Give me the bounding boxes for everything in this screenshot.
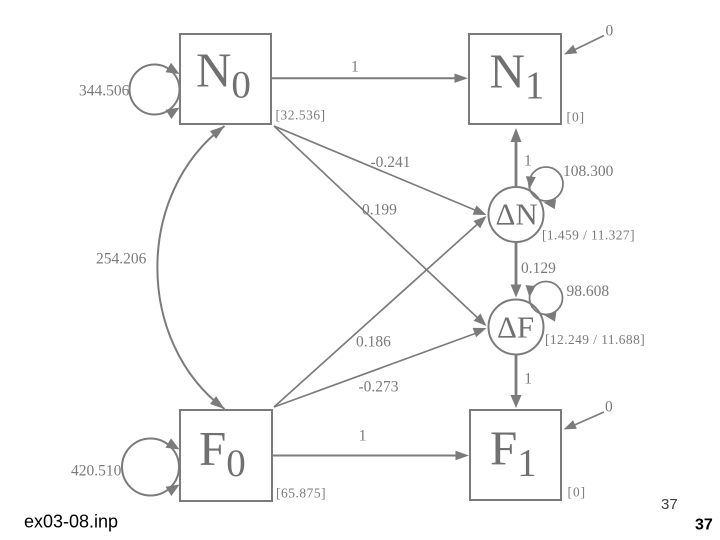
svg-text:F1: F1 bbox=[490, 421, 537, 485]
svg-text:0: 0 bbox=[606, 23, 614, 40]
svg-text:0.129: 0.129 bbox=[521, 260, 556, 277]
svg-text:[1.459 / 11.327]: [1.459 / 11.327] bbox=[542, 228, 635, 243]
svg-text:N1: N1 bbox=[490, 43, 545, 107]
svg-text:0.199: 0.199 bbox=[362, 202, 397, 219]
svg-text:0.186: 0.186 bbox=[356, 334, 391, 351]
svg-text:[65.875]: [65.875] bbox=[276, 485, 326, 500]
svg-text:N0: N0 bbox=[196, 43, 251, 107]
svg-text:254.206: 254.206 bbox=[96, 251, 147, 268]
svg-text:1: 1 bbox=[351, 58, 359, 75]
svg-text:F0: F0 bbox=[199, 421, 246, 485]
svg-text:[12.249 / 11.688]: [12.249 / 11.688] bbox=[545, 332, 645, 347]
svg-text:-0.241: -0.241 bbox=[371, 154, 411, 171]
svg-text:0: 0 bbox=[605, 399, 613, 416]
svg-text:[32.536]: [32.536] bbox=[276, 108, 326, 123]
svg-text:420.510: 420.510 bbox=[71, 463, 122, 480]
svg-text:ex03-08.inp: ex03-08.inp bbox=[24, 512, 118, 532]
svg-text:-0.273: -0.273 bbox=[359, 379, 399, 396]
svg-text:[0]: [0] bbox=[568, 484, 587, 499]
svg-text:1: 1 bbox=[359, 427, 367, 444]
svg-text:37: 37 bbox=[695, 516, 713, 533]
svg-text:1: 1 bbox=[524, 371, 532, 388]
svg-text:98.608: 98.608 bbox=[567, 283, 610, 300]
svg-text:ΔF: ΔF bbox=[497, 310, 534, 345]
svg-text:37: 37 bbox=[661, 496, 678, 513]
svg-text:[0]: [0] bbox=[567, 109, 586, 124]
svg-text:ΔN: ΔN bbox=[496, 197, 538, 232]
svg-text:108.300: 108.300 bbox=[563, 163, 614, 180]
svg-text:1: 1 bbox=[524, 153, 532, 170]
svg-text:344.506: 344.506 bbox=[79, 83, 130, 100]
